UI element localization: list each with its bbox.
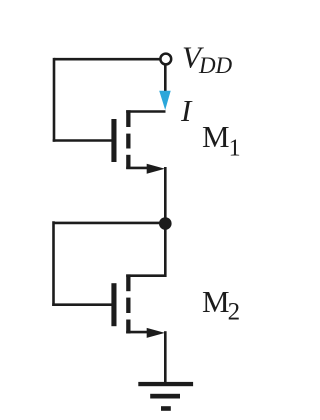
M1 drain lead — [126, 110, 165, 113]
wire: node down to M2 drain — [164, 223, 167, 277]
wire: VDD circle down to current arrow — [164, 64, 167, 94]
M1 channel top dash — [126, 110, 130, 127]
M2 gate bar — [111, 283, 116, 326]
M2 drain lead — [126, 274, 165, 277]
M1 channel middle dash — [126, 134, 130, 149]
wire: VDD top horizontal — [54, 58, 160, 61]
ground bar 1 — [138, 382, 193, 386]
wire: M1 gate lead — [53, 139, 112, 142]
M2 source arrow — [147, 328, 165, 338]
power terminal VDD (open circle) — [160, 54, 171, 65]
node (junction dot) — [159, 217, 172, 230]
wire: M2 gate lead — [52, 303, 111, 306]
svg-text:M2: M2 — [202, 284, 240, 325]
ground — [138, 382, 193, 411]
transistor M2 — [111, 274, 165, 338]
wire: M1 source down to node — [164, 167, 167, 224]
M1 channel bottom dash — [126, 155, 130, 169]
wire: left vertical (node to M2 gate) — [52, 221, 55, 306]
svg-text:VDD: VDD — [182, 40, 233, 79]
wire: left vertical (VDD to M1 gate) — [53, 58, 56, 142]
transistor M1 — [111, 110, 165, 174]
svg-text:I: I — [180, 93, 193, 128]
M2 channel top dash — [126, 274, 130, 291]
M2 source lead — [126, 331, 152, 334]
ground bar 2 — [150, 394, 180, 399]
M1 source arrow — [147, 164, 165, 174]
M2 channel middle dash — [126, 298, 130, 313]
M1 source lead — [126, 167, 152, 170]
M2 channel bottom dash — [126, 320, 130, 334]
M1 gate bar — [111, 119, 116, 162]
current arrow I (blue) — [159, 91, 171, 110]
wire: middle horizontal (node to left) — [54, 222, 166, 225]
svg-text:M1: M1 — [202, 119, 241, 161]
ground bar 3 — [161, 406, 171, 411]
wire: M2 source down to ground — [164, 331, 167, 383]
